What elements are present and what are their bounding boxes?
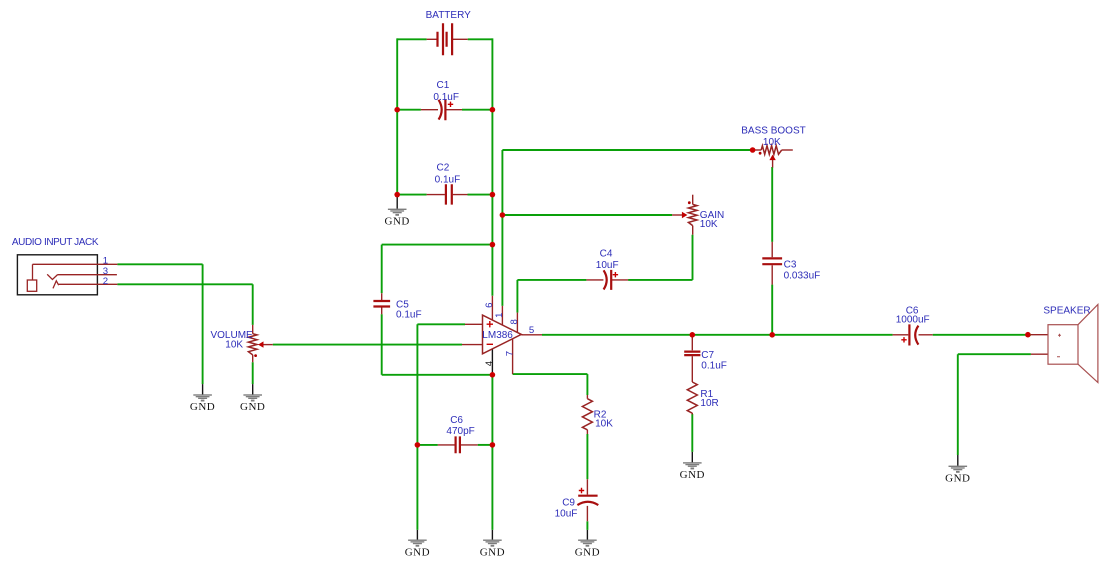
- junction C1 left: [394, 107, 400, 113]
- ground bottom A: [405, 540, 430, 559]
- svg-text:6: 6: [484, 303, 495, 308]
- potentiometer BASS BOOST wiper stub: [772, 160, 774, 168]
- capacitor C1 body: [439, 99, 446, 120]
- wire vcc to C5 top: [382, 244, 493, 246]
- svg-text:GND: GND: [945, 473, 970, 485]
- potentiometer BASS BOOST left lead: [753, 149, 762, 151]
- capacitor C7 to resistor R1 link: [691, 356, 693, 382]
- wire pin7 horizontal: [513, 373, 588, 375]
- svg-text:0.1uF: 0.1uF: [701, 361, 727, 372]
- svg-text:5: 5: [529, 325, 534, 336]
- svg-text:GND: GND: [680, 469, 705, 481]
- op-amp U1 pin 5 lead: [521, 334, 542, 336]
- capacitor C2 body: [446, 184, 452, 204]
- capacitor C6 470pF body: [456, 436, 460, 453]
- potentiometer VOLUME top lead: [252, 325, 254, 334]
- wire gain bottom vertical: [692, 235, 694, 280]
- capacitor C1 leads: [421, 109, 462, 111]
- wire speaker minus horizontal: [958, 353, 1031, 355]
- speaker SP1 minus lead: [1031, 353, 1048, 355]
- op-amp U1 pin 1 lead: [501, 306, 503, 326]
- wire battery top-right: [468, 38, 493, 40]
- svg-text:8: 8: [509, 319, 520, 324]
- wire gain wiper line: [502, 214, 672, 216]
- audio input jack J1 pin 1 inner line: [33, 263, 118, 265]
- potentiometer GAIN terminal marker: [688, 201, 691, 204]
- svg-text:10uF: 10uF: [555, 509, 578, 520]
- wire R1 to gnd: [691, 414, 693, 452]
- svg-text:4: 4: [484, 360, 495, 366]
- svg-text:C4: C4: [600, 249, 613, 260]
- wire output left: [542, 334, 893, 336]
- op-amp U1 pin 7 lead: [512, 339, 514, 374]
- wire jack pin1: [117, 263, 202, 265]
- svg-text:C7: C7: [701, 350, 714, 361]
- potentiometer VOLUME wiper arrow: [258, 341, 264, 347]
- svg-text:2: 2: [103, 276, 108, 287]
- svg-text:10K: 10K: [595, 418, 613, 429]
- ground battery: [385, 209, 410, 228]
- junction output C3: [769, 332, 775, 338]
- audio input jack J1 pin 2 line: [59, 283, 118, 285]
- wire C1 row left: [397, 109, 421, 111]
- battery BT1 plates: [438, 23, 453, 55]
- junction C2 right: [490, 192, 496, 198]
- potentiometer VOLUME bottom lead: [252, 355, 254, 362]
- potentiometer VOLUME wiper lead: [264, 344, 273, 346]
- resistor R1 bottom lead: [691, 413, 693, 414]
- capacitor C9 body: [577, 496, 598, 505]
- junction output C7: [690, 332, 696, 338]
- wire battery gnd black lead: [396, 196, 398, 209]
- capacitor C7 body: [684, 352, 700, 356]
- wire C4 row right: [628, 279, 692, 281]
- potentiometer BASS BOOST wiper arrow: [769, 155, 775, 161]
- ground bottom B: [480, 540, 505, 559]
- wire R1 gnd black lead: [691, 452, 693, 463]
- op-amp U1 plus input mark: [487, 321, 493, 327]
- potentiometer VOLUME zigzag: [248, 334, 257, 355]
- junction speaker plus: [1025, 332, 1031, 338]
- ground volume: [240, 394, 265, 413]
- capacitor C7 top lead: [691, 335, 693, 351]
- ground jack: [190, 394, 215, 413]
- speaker SP1 body: [1048, 305, 1098, 383]
- wire pin4 down rail: [491, 375, 493, 530]
- svg-text:C3: C3: [784, 259, 797, 270]
- wire pin4 black lead: [491, 349, 493, 375]
- potentiometer GAIN zigzag: [688, 204, 697, 225]
- wire pin1 rail: [501, 150, 503, 306]
- svg-text:GND: GND: [385, 216, 410, 228]
- potentiometer VOLUME terminal marker: [254, 354, 257, 357]
- wire pin8 vertical: [516, 280, 518, 313]
- wire speaker gnd vertical: [957, 354, 959, 455]
- audio input jack J1 box: [17, 255, 97, 295]
- wire volume top vertical: [252, 284, 254, 325]
- audio input jack J1 pin 3 line: [58, 274, 117, 276]
- potentiometer GAIN top stub: [692, 195, 694, 205]
- wire C5 top vertical: [381, 245, 383, 294]
- wire volume bottom to gnd: [252, 362, 254, 384]
- wire volume gnd black lead: [252, 384, 254, 395]
- wire jack gnd black lead: [202, 384, 204, 395]
- potentiometer GAIN bottom lead: [692, 226, 694, 235]
- junction bass boost left: [750, 147, 756, 153]
- svg-text:0.1uF: 0.1uF: [433, 92, 459, 103]
- capacitor C9 plus mark: [579, 488, 584, 493]
- wire battery plus rail to pin6: [491, 38, 493, 295]
- wire R2 to C9: [586, 434, 588, 479]
- svg-text:470pF: 470pF: [446, 426, 474, 437]
- wire pin1 to bass boost: [502, 149, 752, 151]
- potentiometer BASS BOOST terminal marker: [759, 152, 762, 155]
- wire jack pin2 to volume: [117, 283, 252, 285]
- ground R1: [680, 462, 705, 481]
- junction gain wiper: [500, 212, 506, 218]
- ground C9: [575, 540, 600, 559]
- wire C9 gnd black lead: [586, 530, 588, 540]
- svg-text:1: 1: [494, 313, 505, 318]
- wire volume wiper to pin3: [273, 344, 462, 346]
- potentiometer BASS BOOST right stub: [782, 149, 793, 151]
- capacitor C2 leads: [427, 194, 468, 196]
- potentiometer BASS BOOST zigzag: [761, 146, 782, 155]
- wire ground row to pin4: [382, 374, 493, 376]
- wire gnd B black lead: [491, 530, 493, 540]
- op-amp U1 pin 6 lead: [491, 296, 493, 321]
- svg-text:C9: C9: [562, 498, 575, 509]
- svg-text:1000uF: 1000uF: [896, 315, 930, 326]
- svg-text:GND: GND: [575, 546, 600, 558]
- svg-text:AUDIO INPUT JACK: AUDIO INPUT JACK: [12, 237, 99, 248]
- capacitor C6 470pF leads: [438, 444, 478, 446]
- svg-text:0.033uF: 0.033uF: [784, 270, 821, 281]
- capacitor C6 1000uF leads: [893, 334, 933, 336]
- svg-text:BASS BOOST: BASS BOOST: [741, 125, 805, 136]
- wire speaker gnd black lead: [957, 455, 959, 466]
- potentiometer GAIN wiper lead: [672, 214, 682, 216]
- op-amp U1 pin 3 lead: [462, 344, 483, 346]
- capacitor C6 1000uF plus mark: [901, 337, 906, 342]
- svg-text:GND: GND: [405, 546, 430, 558]
- wire C6 470pF row left: [417, 444, 437, 446]
- resistor R2 leads: [586, 395, 588, 434]
- wire jack gnd rail: [202, 264, 204, 384]
- capacitor C1 plus mark: [448, 102, 453, 107]
- resistor R2 zigzag: [582, 399, 592, 430]
- potentiometer GAIN wiper arrow: [682, 212, 688, 218]
- svg-text:10K: 10K: [225, 340, 243, 351]
- svg-text:10R: 10R: [700, 398, 718, 409]
- svg-text:0.1uF: 0.1uF: [435, 175, 461, 186]
- op-amp U1 triangle: [483, 315, 522, 354]
- wire C2 row right: [468, 194, 493, 196]
- wire bass wiper to C3: [771, 167, 773, 242]
- wire C6 470pF row right: [478, 444, 493, 446]
- svg-text:SPEAKER: SPEAKER: [1043, 306, 1090, 317]
- svg-text:GND: GND: [240, 401, 265, 413]
- junction C1 right: [490, 107, 496, 113]
- wire pin2 horizontal: [417, 323, 465, 325]
- junction C2 left: [394, 192, 400, 198]
- battery BT1 right lead: [452, 38, 468, 40]
- speaker SP1 plus lead: [1031, 334, 1048, 336]
- junction C6 470pF right: [490, 442, 496, 448]
- wire C3 to output: [771, 285, 773, 335]
- resistor R1 zigzag: [687, 382, 697, 413]
- capacitor C5 body: [373, 301, 390, 307]
- wire pin7 to R2: [586, 374, 588, 395]
- capacitor C3 body: [762, 258, 782, 264]
- ground speaker: [945, 466, 970, 485]
- capacitor C4 body: [604, 270, 612, 290]
- wire gnd A black lead: [416, 530, 418, 540]
- op-amp U1 pin 2 lead: [465, 323, 483, 325]
- junction C6 470pF left: [415, 442, 421, 448]
- svg-text:10K: 10K: [700, 219, 718, 230]
- capacitor C6 1000uF body: [909, 324, 918, 345]
- svg-text:C2: C2: [437, 163, 450, 174]
- wire C4 row left: [517, 279, 586, 281]
- svg-text:10uF: 10uF: [596, 260, 619, 271]
- svg-text:GND: GND: [190, 401, 215, 413]
- svg-text:10K: 10K: [763, 137, 781, 148]
- svg-text:GND: GND: [480, 546, 505, 558]
- capacitor C3 leads: [771, 242, 773, 285]
- wire battery left rail: [396, 38, 398, 194]
- svg-text:C1: C1: [437, 80, 450, 91]
- wire C5 bottom vertical: [381, 314, 383, 375]
- capacitor C5 leads: [381, 293, 383, 314]
- op-amp U1 minus input mark: [487, 343, 493, 345]
- junction pin4 ground: [490, 372, 496, 378]
- op-amp U1 pin 8 lead: [516, 313, 518, 333]
- capacitor C4 leads: [586, 279, 628, 281]
- svg-text:LM386: LM386: [482, 330, 513, 341]
- svg-text:0.1uF: 0.1uF: [396, 309, 422, 320]
- svg-text:7: 7: [504, 351, 515, 356]
- capacitor C4 plus mark: [613, 272, 618, 277]
- wire C9 to gnd: [586, 521, 588, 530]
- wire C1 row right: [462, 109, 492, 111]
- junction C5 top: [490, 242, 496, 248]
- wire pin2 down rail: [416, 324, 418, 530]
- capacitor C9 leads: [586, 479, 588, 521]
- wire C2 row left: [397, 194, 426, 196]
- audio input jack J1 sleeve symbol: [27, 264, 58, 291]
- battery BT1 left lead: [427, 38, 438, 40]
- svg-text:C6: C6: [450, 415, 463, 426]
- svg-text:BATTERY: BATTERY: [426, 10, 472, 21]
- wire output right: [933, 334, 1031, 336]
- wire battery top-left: [397, 38, 426, 40]
